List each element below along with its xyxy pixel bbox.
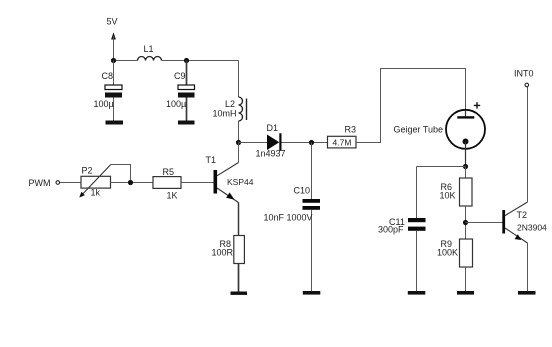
wire T1 emitter down to R8 [238,203,240,236]
ground below C9 [178,121,195,125]
resistor R6 [440,178,473,206]
node junction R6/R9/T2 base [463,220,468,225]
wire T1 collector up to node [238,143,240,163]
svg-text:PWM: PWM [29,178,51,188]
svg-text:2N3904: 2N3904 [517,223,547,233]
svg-text:100µ: 100µ [94,99,114,109]
ground below T2 [518,291,536,295]
svg-text:C8: C8 [102,71,114,81]
node junction C10 [309,140,314,145]
ground below C8 [106,121,124,125]
svg-text:T2: T2 [517,210,528,220]
svg-text:L1: L1 [144,44,154,54]
resistor R3 [328,125,357,148]
svg-text:10nF 1000V: 10nF 1000V [264,213,313,223]
wire R6 to R9 [465,206,467,239]
node junction at C9 [184,58,189,63]
wire tube node to R6 [465,167,467,179]
potentiometer P2 [79,165,130,198]
wire L2 to collector node [238,121,240,143]
capacitor C11 [378,217,426,291]
svg-text:300pF: 300pF [378,225,404,235]
svg-text:1n4937: 1n4937 [256,149,286,159]
svg-text:Geiger Tube: Geiger Tube [394,125,444,135]
node PWM terminal [29,178,60,188]
wire base T2 [466,222,503,224]
wire L1 to corner [162,60,239,62]
wire R9 to ground [465,267,467,291]
svg-text:R5: R5 [163,167,175,177]
ground below R8 [231,292,248,295]
ground below C10 [303,291,321,295]
svg-text:100R: 100R [212,248,234,258]
svg-text:4.7M: 4.7M [333,138,352,148]
node junction L2/D1/T1 collector [236,140,241,145]
wire T2 collector to INT0 [527,87,529,202]
wire 5V node to L1 [114,60,138,62]
svg-text:INT0: INT0 [514,69,534,79]
ground below C11 [408,291,426,295]
wire R3 to top rail [356,69,466,143]
inductor L2 [213,97,247,121]
svg-text:1K: 1K [167,191,178,201]
capacitor C9 [166,61,195,121]
svg-text:10K: 10K [440,191,456,201]
svg-text:5V: 5V [107,17,118,27]
transistor T1 [206,155,254,203]
capacitor C8 [94,61,123,121]
svg-text:KSP44: KSP44 [227,177,254,187]
wire P2 through to junction [111,182,154,184]
svg-text:100µ: 100µ [166,99,186,109]
diode D1 [256,123,286,159]
resistor R9 [437,239,473,267]
resistor R5 [153,167,181,201]
wire T2 emitter to ground [527,243,529,291]
capacitor C10 [264,143,321,292]
wire PWM to P2 [60,182,81,184]
svg-text:10mH: 10mH [213,109,237,119]
node junction P2 wiper [128,180,133,185]
resistor R8 [212,236,245,264]
svg-text:1k: 1k [91,188,101,198]
svg-text:P2: P2 [82,166,93,176]
wire corner down to L2 [238,61,240,98]
svg-text:100K: 100K [437,248,458,258]
svg-text:R3: R3 [345,125,357,135]
svg-text:C10: C10 [294,186,311,196]
wire R8 to ground [238,264,240,292]
svg-text:C9: C9 [174,71,186,81]
node junction at 5V/C8 [111,58,116,63]
transistor T2 [502,202,547,243]
Geiger Tube [394,102,486,166]
svg-text:D1: D1 [267,123,279,133]
node INT0 terminal [514,69,534,87]
svg-text:L2: L2 [225,99,235,109]
wire R5 to T1 base [181,182,214,184]
node 5V supply arrow [107,17,118,61]
wire D1 to C10 node [282,142,328,144]
svg-text:T1: T1 [206,155,217,165]
node junction below tube [463,164,468,169]
wire tube node to C11 branch [417,166,466,168]
ground below R9 [457,291,474,295]
wire node to D1 [239,142,268,144]
inductor L1 [138,44,162,61]
